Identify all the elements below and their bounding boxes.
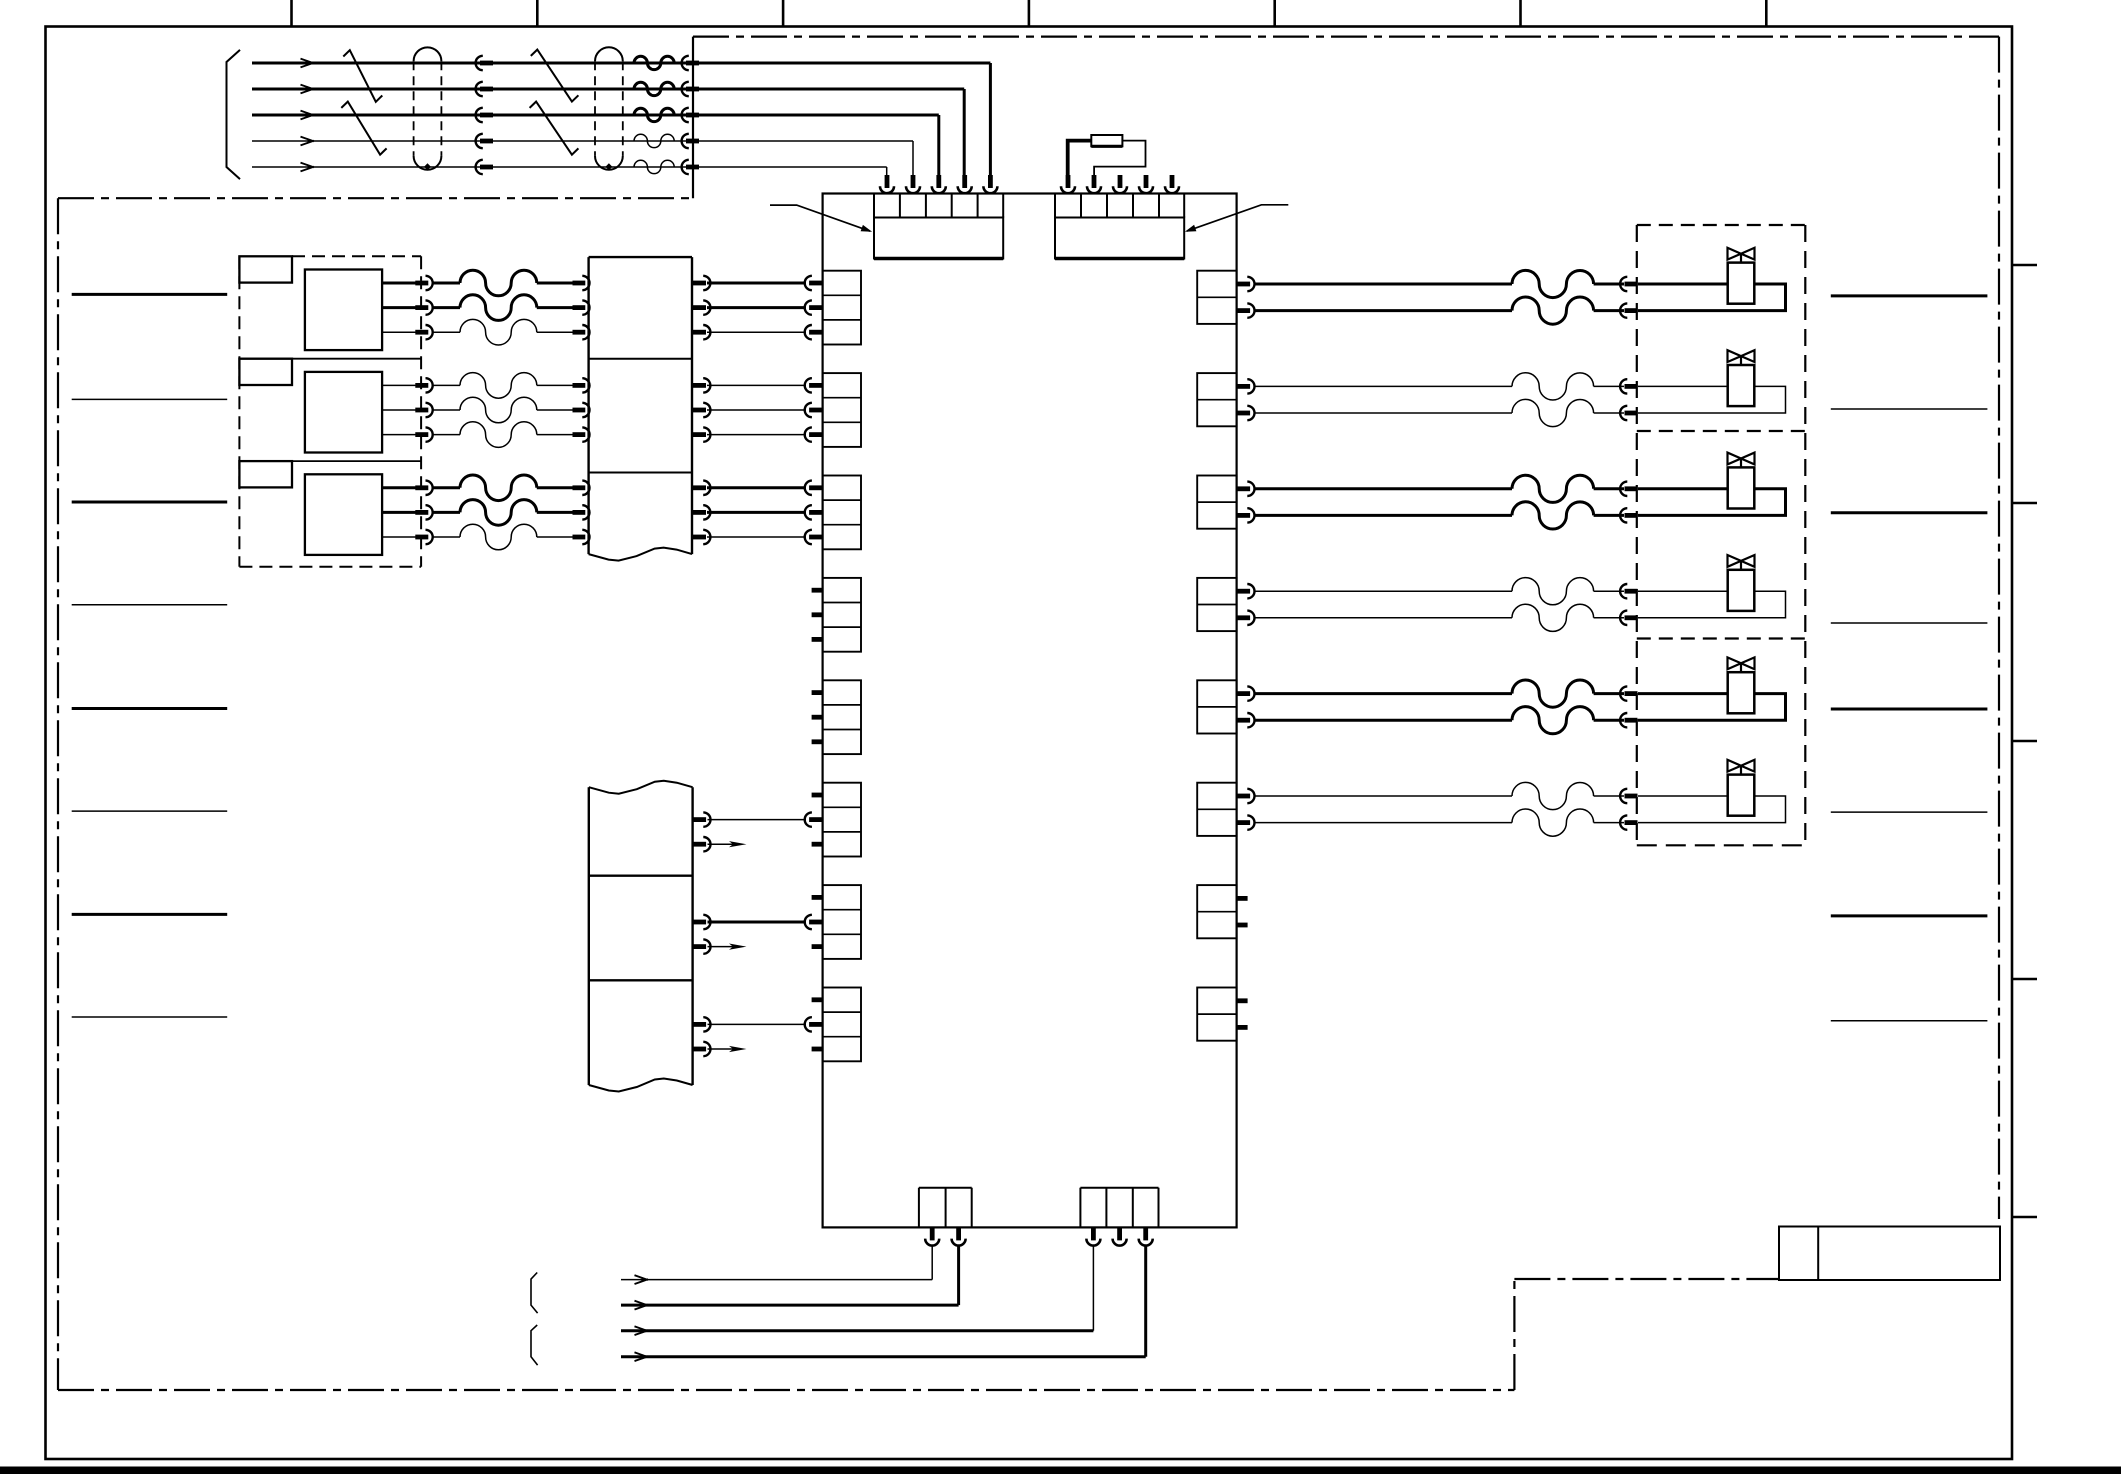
right process line 8 — [1831, 1020, 1988, 1022]
stub pin left module 6 cell 1 — [812, 793, 823, 798]
bottom terminal X4 cells — [1079, 1188, 1081, 1228]
valve circuit 3 wires — [1237, 486, 1250, 491]
stub pin left module 7 cell 3 — [812, 944, 823, 949]
input bundle brace — [227, 50, 241, 179]
border ruler tick top 2 — [536, 0, 539, 27]
isolator switch S3 (lines 1-2) — [531, 50, 579, 102]
bottom terminal X3 cells — [918, 1188, 920, 1228]
right process line 2 — [1831, 408, 1988, 410]
twisted-pair wave on input wire 1 — [634, 56, 674, 69]
right module box 1 — [1197, 271, 1236, 324]
field input wire 1 — [252, 62, 484, 65]
connector pair on input wire 1 — [476, 56, 483, 70]
lower strip wire 2A to PLC — [693, 920, 706, 925]
border ruler tick right 5 — [2012, 1216, 2037, 1219]
border ruler tick top 6 — [1519, 0, 1522, 27]
border ruler tick right 3 — [2012, 740, 2037, 743]
field input wire 2 — [252, 88, 484, 91]
isolator switch S2 (lines 3-4) — [341, 102, 386, 155]
stub pin left module 8 cell 3 — [812, 1047, 823, 1052]
connector pair on input wire 5 — [476, 160, 483, 174]
right process line 6 — [1831, 811, 1988, 813]
connector pair on input wire 4 — [476, 134, 483, 148]
solenoid valve V3 body — [1728, 467, 1755, 508]
connector at cabinet boundary, input wire 4 — [682, 134, 689, 148]
border ruler tick right 1 — [2012, 264, 2037, 267]
stub pin left module 8 cell 1 — [812, 997, 823, 1002]
stub pin right module 7 cell 1 — [1237, 896, 1248, 901]
left process line 8 — [72, 1016, 228, 1018]
lower terminal strip (torn both ends) — [588, 787, 590, 1085]
left process line 2 — [72, 398, 228, 400]
X1 terminal pin 3 — [936, 175, 941, 188]
lower strip wire 3B spare arrow — [693, 1047, 706, 1052]
top terminal X1 body — [874, 218, 1003, 259]
cable shield capsule 2 — [595, 47, 623, 61]
X2 terminal pin 5 — [1170, 175, 1175, 188]
valve circuit 5 wires — [1237, 691, 1250, 696]
stub pin left module 5 cell 2 — [812, 715, 823, 720]
valve circuit 6 wires — [1237, 794, 1250, 799]
border ruler tick right 4 — [2012, 978, 2037, 981]
bottom supply wire 4 — [621, 1355, 1146, 1358]
connector at cabinet boundary, input wire 1 — [682, 56, 689, 70]
sensor unit 3 body — [305, 474, 382, 555]
left module box 2 — [823, 373, 861, 447]
top terminal X2 cells — [1054, 194, 1056, 218]
jumper wire B — [1094, 141, 1145, 175]
right process line 5 — [1831, 708, 1988, 711]
connector pair on input wire 3 — [476, 108, 483, 122]
right module box 4 — [1197, 578, 1236, 631]
X1 terminal pin 1 — [885, 175, 890, 188]
left process line 6 — [72, 810, 228, 812]
X2 terminal pin 3 — [1118, 175, 1123, 188]
left module box 5 — [823, 680, 861, 754]
X1 terminal pin 4 — [962, 175, 967, 188]
callout leader to X1 — [770, 205, 870, 231]
right module box 6 — [1197, 783, 1236, 836]
top terminal X2 body — [1055, 218, 1184, 259]
terminal strip (tall, torn bottom) — [587, 257, 589, 554]
sensor unit 1 body — [305, 270, 382, 351]
strip wire 1.3 — [693, 330, 706, 335]
twisted-pair wave on input wire 4 — [634, 134, 674, 147]
bottom supply wire 3 — [621, 1329, 1093, 1332]
connector pair on input wire 2 — [476, 82, 483, 96]
right module box 5 — [1197, 680, 1236, 733]
bottom scan bar — [0, 1467, 2121, 1474]
solenoid valve V1 bowtie — [1728, 248, 1742, 260]
lower strip wire 1A to PLC — [693, 817, 706, 822]
X2 terminal pin 4 — [1144, 175, 1149, 188]
strip wire 1.2 — [693, 305, 706, 310]
strip wire 1.1 — [693, 281, 706, 286]
lower strip wire 3A to PLC — [693, 1022, 706, 1027]
sensor 3 wire 3 — [382, 536, 415, 538]
field input wire 4 — [252, 140, 484, 142]
sensor 1 wire 2 — [382, 306, 415, 309]
field input wire 3 — [252, 114, 484, 117]
left process line 7 — [72, 913, 228, 916]
left process line 4 — [72, 604, 228, 606]
sensor 1 wire 3 — [382, 331, 415, 333]
twisted-pair wave on input wire 3 — [634, 108, 674, 121]
right module box 8 — [1197, 988, 1236, 1041]
sensors dashed enclosure — [238, 256, 240, 567]
sensor unit 2 head — [239, 358, 421, 360]
stub pin left module 5 cell 3 — [812, 739, 823, 744]
X4 pin 2 — [1117, 1227, 1122, 1240]
stub pin left module 4 cell 1 — [812, 588, 823, 593]
lower strip wire 1B spare arrow — [693, 842, 706, 847]
strip wire 2.3 — [693, 432, 706, 437]
cabinet boundary left vertical solid segment — [692, 37, 694, 199]
solenoid valve V6 body — [1728, 775, 1755, 816]
title block — [1779, 1227, 2000, 1281]
sensor unit 3 head — [239, 460, 421, 462]
X4 pin 3 — [1143, 1227, 1148, 1240]
isolator switch S1 (lines 1-2) — [343, 50, 382, 102]
X3 pin 2 — [956, 1227, 961, 1240]
sensor 3 wire 1 — [382, 486, 415, 489]
cabinet boundary bottom step horizontal (dash-dot) — [1514, 1278, 1779, 1280]
left process line 1 — [72, 293, 228, 296]
bottom supply wire 2 — [621, 1304, 959, 1307]
left module box 4 — [823, 578, 861, 652]
solenoid valve V6 bowtie — [1728, 760, 1742, 772]
connector at cabinet boundary, input wire 5 — [682, 160, 689, 174]
strip wire 2.1 — [693, 383, 706, 388]
PLC main block outline — [823, 194, 1237, 1228]
cabinet boundary right (dash-dot) — [1998, 37, 2000, 1219]
valve circuit 4 wires — [1237, 589, 1250, 594]
X1 terminal pin 5 — [988, 175, 993, 188]
top terminal X1 cells — [873, 194, 875, 218]
field input wire 5 — [252, 166, 484, 168]
sensor unit 1 head — [239, 256, 292, 282]
sensor 1 wire 1 — [382, 282, 415, 285]
isolator switch S4 (lines 3-4) — [530, 102, 579, 155]
connector at cabinet boundary, input wire 3 — [682, 108, 689, 122]
border ruler tick top 5 — [1273, 0, 1276, 27]
solenoid valve V3 bowtie — [1728, 453, 1742, 465]
strip wire 3.1 — [693, 485, 706, 490]
strip wire 3.3 — [693, 535, 706, 540]
left module box 1 — [823, 271, 861, 345]
solenoid valve V4 bowtie — [1728, 555, 1742, 567]
stub pin right module 8 cell 1 — [1237, 998, 1248, 1003]
solenoid valve V2 body — [1728, 365, 1755, 406]
sensor 3 wire 2 — [382, 511, 415, 514]
bottom brace 1 — [531, 1273, 538, 1314]
border ruler tick top 7 — [1765, 0, 1768, 27]
twisted-pair wave on input wire 2 — [634, 82, 674, 95]
solenoid valve V5 body — [1728, 672, 1755, 713]
stub pin right module 8 cell 2 — [1237, 1025, 1248, 1030]
sensor 2 wire 2 — [382, 409, 415, 411]
stub pin left module 7 cell 1 — [812, 895, 823, 900]
left process line 5 — [72, 707, 228, 710]
left module box 3 — [823, 476, 861, 550]
connector at cabinet boundary, input wire 2 — [682, 82, 689, 96]
solenoid valve V1 body — [1728, 263, 1755, 304]
strip wire 3.2 — [693, 510, 706, 515]
jumper resistor on X2 — [1091, 135, 1122, 146]
cabinet boundary top (dash-dot) — [693, 35, 1999, 37]
valve circuit 2 wires — [1237, 384, 1250, 389]
right process line 3 — [1831, 511, 1988, 514]
cabinet boundary left (dash-dot) — [57, 198, 59, 1390]
X2 terminal pin 2 — [1092, 175, 1097, 188]
valve area dashed boxes — [1637, 224, 1806, 226]
solenoid valve V2 bowtie — [1728, 350, 1742, 362]
solenoid valve V4 body — [1728, 570, 1755, 611]
right module box 7 — [1197, 885, 1236, 938]
border ruler tick right 2 — [2012, 502, 2037, 505]
stub pin left module 5 cell 1 — [812, 690, 823, 695]
X3 pin 1 — [930, 1227, 935, 1240]
cable shield capsule 1 — [414, 47, 442, 61]
stub pin left module 4 cell 3 — [812, 637, 823, 642]
left module box 7 — [823, 885, 861, 959]
sensor unit 2 body — [305, 372, 382, 453]
right module box 3 — [1197, 476, 1236, 529]
left module box 8 — [823, 988, 861, 1062]
solenoid valve V5 bowtie — [1728, 657, 1742, 669]
left process line 3 — [72, 501, 228, 504]
border ruler tick top 1 — [290, 0, 293, 27]
bottom brace 2 — [531, 1325, 538, 1365]
right process line 7 — [1831, 914, 1988, 917]
sensor 2 wire 3 — [382, 434, 415, 436]
jumper wire A — [1068, 141, 1092, 175]
bottom supply wire 1 — [621, 1279, 932, 1281]
border ruler tick top 3 — [782, 0, 785, 27]
strip wire 2.2 — [693, 408, 706, 413]
cabinet boundary bottom step vertical (dash-dot) — [1513, 1279, 1515, 1390]
right process line 1 — [1831, 294, 1988, 297]
X1 terminal pin 2 — [911, 175, 916, 188]
lower strip wire 2B spare arrow — [693, 944, 706, 949]
valve circuit 1 wires — [1237, 282, 1250, 287]
twisted-pair wave on input wire 5 — [634, 160, 674, 173]
border ruler tick top 4 — [1028, 0, 1031, 27]
stub pin left module 4 cell 2 — [812, 612, 823, 617]
X2 terminal pin 1 — [1066, 175, 1071, 188]
cabinet boundary bottom (dash-dot) — [58, 1389, 1514, 1391]
cabinet boundary below field inputs (dash-dot) — [58, 197, 693, 199]
left module box 6 — [823, 783, 861, 857]
right module box 2 — [1197, 373, 1236, 426]
X4 pin 1 — [1091, 1227, 1096, 1240]
stub pin right module 7 cell 2 — [1237, 923, 1248, 928]
stub pin left module 6 cell 3 — [812, 842, 823, 847]
right process line 4 — [1831, 622, 1988, 624]
callout leader to X2 — [1187, 205, 1288, 231]
sensor 2 wire 1 — [382, 384, 415, 386]
